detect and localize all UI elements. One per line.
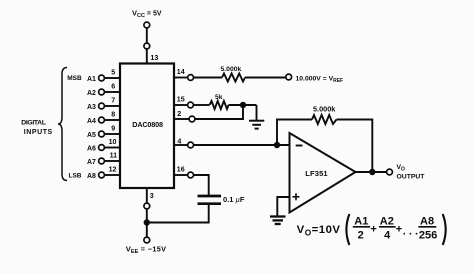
svg-text:A1: A1 <box>354 215 368 227</box>
junction feedback node <box>274 142 280 148</box>
node A2 input <box>87 83 120 98</box>
pin 3 circle <box>144 203 150 209</box>
svg-text:16: 16 <box>177 165 185 173</box>
svg-text:2: 2 <box>177 110 181 118</box>
svg-text:+: + <box>370 223 376 235</box>
svg-text:A4: A4 <box>87 118 96 125</box>
svg-text:A8: A8 <box>87 173 96 180</box>
pin 15 circle <box>188 102 194 108</box>
svg-text:4: 4 <box>177 138 181 146</box>
pin 4 circle <box>188 142 194 148</box>
node A1 input <box>87 69 120 84</box>
svg-text:A5: A5 <box>87 132 96 139</box>
svg-text:OUTPUT: OUTPUT <box>397 174 426 181</box>
svg-text:A2: A2 <box>380 215 394 227</box>
pin 16 wire <box>174 174 188 176</box>
svg-text:. . .: . . . <box>403 225 418 237</box>
pin 14 circle <box>188 75 194 81</box>
svg-text:14: 14 <box>177 68 185 76</box>
svg-text:12: 12 <box>109 166 117 174</box>
wire pin 4 to op-amp inverting input <box>194 144 290 146</box>
terminal VO output <box>387 169 393 175</box>
wire op-amp noninverting input to ground <box>277 197 289 216</box>
svg-text:10: 10 <box>109 138 117 146</box>
svg-text:A3: A3 <box>87 104 96 111</box>
svg-text:VO=10V: VO=10V <box>297 224 341 237</box>
svg-text:11: 11 <box>110 152 118 160</box>
resistor R2 5k <box>210 101 229 109</box>
svg-text:A7: A7 <box>87 159 96 166</box>
svg-text:5: 5 <box>111 69 115 77</box>
svg-text:4: 4 <box>384 229 391 241</box>
svg-text:8: 8 <box>111 111 115 119</box>
svg-text:A1: A1 <box>87 76 96 83</box>
svg-text:LF351: LF351 <box>305 169 327 178</box>
svg-text:+: + <box>396 223 402 235</box>
junction pin2/pin15 <box>240 102 246 108</box>
svg-text:LSB: LSB <box>69 173 82 180</box>
wire capacitor C1 to VEE node <box>147 205 209 223</box>
svg-text:VCC = 5V: VCC = 5V <box>132 9 162 20</box>
junction output node <box>369 169 375 175</box>
pin 13 circle <box>144 43 150 49</box>
pin 14 wire <box>174 77 188 79</box>
svg-text:0.1 µF: 0.1 µF <box>223 195 245 204</box>
svg-text:15: 15 <box>177 96 185 104</box>
wire pin 16 to capacitor C1 <box>194 175 209 195</box>
wire pin 2 to junction <box>195 105 243 119</box>
formula VO = 10V (A1/2 + A2/4 + ... A8/256) <box>297 214 446 245</box>
svg-text:5k: 5k <box>215 94 223 101</box>
terminal VREF <box>286 74 292 80</box>
wire to resistor R1 <box>194 77 222 79</box>
junction VEE node <box>144 219 150 225</box>
svg-text:5.000k: 5.000k <box>313 104 336 113</box>
node A6 input <box>87 138 120 153</box>
terminal VEE <box>144 237 150 243</box>
svg-text:256: 256 <box>419 229 437 241</box>
svg-text:A6: A6 <box>87 146 96 153</box>
IC U1 DAC0808 body <box>120 64 174 189</box>
pin 2 circle <box>189 116 195 122</box>
svg-text:A2: A2 <box>87 90 96 97</box>
svg-text:2: 2 <box>358 229 364 241</box>
node A7 input <box>87 152 120 167</box>
wire junction to ground G1 <box>256 105 258 121</box>
svg-text:A8: A8 <box>420 215 434 227</box>
op-amp plus sign <box>293 193 300 200</box>
svg-text:13: 13 <box>150 54 158 62</box>
node A8 input <box>87 166 120 181</box>
op-amp minus sign <box>296 145 303 147</box>
node A4 input <box>87 111 120 126</box>
pin 15 wire <box>174 104 188 106</box>
pin 16 circle <box>188 172 194 178</box>
svg-text:3: 3 <box>150 192 154 200</box>
wire to resistor R2 <box>194 104 210 106</box>
wire VCC to pin 13 <box>146 28 148 64</box>
pin 4 wire <box>174 144 188 146</box>
terminal VCC <box>144 22 150 28</box>
svg-text:5.000k: 5.000k <box>221 66 242 73</box>
brace digital inputs <box>58 68 67 181</box>
wire feedback left leg <box>277 120 312 146</box>
svg-text:DAC0808: DAC0808 <box>132 120 163 129</box>
resistor R1 5.000k <box>222 74 245 82</box>
svg-text:INPUTS: INPUTS <box>24 129 53 136</box>
svg-text:7: 7 <box>111 97 115 105</box>
node A3 input <box>87 97 120 112</box>
svg-text:6: 6 <box>111 83 115 91</box>
ground G1 <box>249 121 264 129</box>
wire op-amp output <box>356 171 387 173</box>
svg-text:MSB: MSB <box>67 75 82 82</box>
op-amp U2 LF351 triangle <box>290 133 356 213</box>
pin 3 wire <box>146 188 148 237</box>
capacitor C1 0.1uF <box>198 195 245 204</box>
ground G2 <box>270 217 286 225</box>
resistor R3 5.000k feedback <box>312 115 337 124</box>
wire resistor to VREF terminal <box>245 77 286 79</box>
wire resistor R2 to junction <box>229 104 257 106</box>
pin 2 wire <box>174 118 189 120</box>
svg-text:DIGITAL: DIGITAL <box>21 120 45 127</box>
svg-text:9: 9 <box>111 125 115 133</box>
wire feedback right leg <box>337 120 373 173</box>
node A5 input <box>87 125 120 140</box>
